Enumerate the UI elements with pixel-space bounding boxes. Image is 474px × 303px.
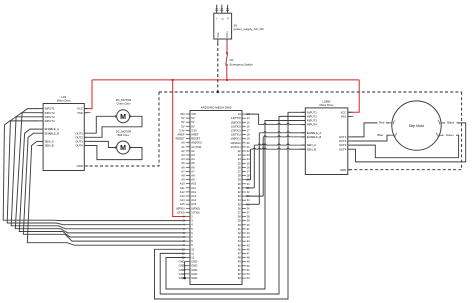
- svg-text:20(SDA): 20(SDA): [230, 141, 240, 145]
- junction GND tie bottom: [183, 277, 186, 280]
- motor drive U1 L1N: [37, 95, 91, 171]
- motor drive U4 L298N: [299, 99, 354, 174]
- svg-text:A11: A11: [180, 186, 185, 190]
- wire switch to red bus (red): [226, 66, 228, 80]
- wire GND bus horizontal dashed: [159, 91, 462, 93]
- svg-text:17(RX2): 17(RX2): [231, 129, 241, 133]
- svg-text:16(TX2): 16(TX2): [231, 124, 241, 128]
- svg-text:A0: A0: [181, 141, 185, 145]
- pin 2 Blue: [391, 134, 394, 136]
- svg-text:A4: A4: [191, 157, 195, 161]
- wire L298N OUT3 to M3 Green: [351, 135, 458, 158]
- svg-text:A1: A1: [181, 145, 185, 149]
- svg-text:DC_MOTOR: DC_MOTOR: [116, 129, 131, 133]
- svg-text:52: 52: [238, 272, 241, 276]
- svg-text:28: 28: [238, 174, 241, 178]
- svg-text:A11: A11: [191, 186, 196, 190]
- svg-text:11: 11: [191, 251, 194, 255]
- pin VDC- stub: [217, 39, 219, 43]
- svg-text:41: 41: [247, 227, 250, 231]
- svg-text:36: 36: [247, 206, 250, 210]
- svg-text:Motor Drive: Motor Drive: [320, 103, 334, 107]
- svg-text:RESET: RESET: [176, 137, 185, 141]
- node Blue label: [376, 132, 386, 137]
- svg-text:G: G: [226, 18, 228, 20]
- svg-text:34: 34: [247, 198, 250, 202]
- svg-text:A6: A6: [191, 165, 195, 169]
- svg-text:37: 37: [247, 211, 250, 215]
- svg-text:22: 22: [238, 149, 241, 153]
- svg-text:19(RX1): 19(RX1): [231, 137, 241, 141]
- svg-text:OUT4: OUT4: [339, 147, 347, 151]
- svg-text:A3: A3: [191, 153, 195, 157]
- svg-text:5V: 5V: [191, 120, 194, 124]
- svg-text:42: 42: [238, 231, 241, 235]
- wire OUT3 to M2 left: [88, 141, 116, 147]
- microcontroller U2 ARDUINO MEGA 2560: [176, 105, 250, 284]
- wire L1N INPUT1 to Arduino pin 6: [15, 109, 186, 233]
- svg-text:A7: A7: [181, 169, 185, 173]
- svg-text:M: M: [120, 114, 126, 121]
- svg-text:40: 40: [238, 223, 241, 227]
- svg-text:VSS: VSS: [341, 115, 347, 119]
- svg-text:46: 46: [247, 247, 250, 251]
- svg-text:38: 38: [238, 215, 241, 219]
- svg-text:Green: Green: [446, 133, 454, 137]
- svg-text:25: 25: [247, 161, 250, 165]
- DC motor M1 Chain Conv: [115, 98, 131, 123]
- svg-text:5V: 5V: [191, 124, 194, 128]
- svg-text:GND: GND: [179, 260, 185, 264]
- svg-text:VDC+: VDC+: [226, 31, 229, 38]
- svg-text:A6: A6: [181, 165, 185, 169]
- svg-text:A15: A15: [180, 202, 185, 206]
- power supply U3 5V power_supply_AC_DC: [214, 5, 265, 39]
- junction red bus / arduino branch: [172, 79, 174, 81]
- svg-text:53: 53: [247, 276, 250, 280]
- svg-text:43: 43: [238, 235, 241, 239]
- svg-text:30: 30: [247, 182, 250, 186]
- svg-text:43: 43: [247, 235, 250, 239]
- svg-text:Red: Red: [379, 121, 385, 125]
- svg-text:50: 50: [238, 264, 241, 268]
- svg-text:L298N: L298N: [323, 99, 331, 103]
- wire Arduino pin 13 to L298N INPUT4: [246, 114, 259, 125]
- wire L298N OUT2 to M3 Blue: [351, 135, 390, 141]
- svg-text:A12: A12: [191, 190, 196, 194]
- svg-text:Step Motor: Step Motor: [409, 124, 426, 128]
- svg-text:35: 35: [238, 202, 241, 206]
- svg-text:AREF: AREF: [177, 133, 185, 137]
- svg-text:Black: Black: [447, 121, 454, 125]
- svg-text:14: 14: [247, 116, 250, 120]
- svg-text:INPUT4: INPUT4: [45, 119, 55, 123]
- svg-text:A13: A13: [180, 194, 185, 198]
- svg-text:NC: NC: [230, 58, 234, 62]
- DC motor M2 Belt Conv: [115, 129, 131, 154]
- svg-text:GND: GND: [191, 268, 197, 272]
- node Green label: [444, 132, 457, 137]
- wire Arduino pin 11 wrap to L298N INPUT2: [160, 116, 305, 294]
- svg-text:M: M: [120, 145, 126, 152]
- wire L298N OUT1 to M3 Red: [351, 123, 389, 137]
- svg-text:50: 50: [247, 264, 250, 268]
- svg-text:GND: GND: [191, 272, 197, 276]
- svg-text:21(SCL): 21(SCL): [231, 145, 241, 149]
- svg-text:39: 39: [247, 219, 250, 223]
- svg-text:VIN: VIN: [180, 112, 185, 116]
- svg-text:A2: A2: [181, 149, 185, 153]
- svg-text:A7: A7: [191, 169, 195, 173]
- pin VDC+ stub: [226, 39, 228, 43]
- wire L298N OUT4 to M3 Black: [351, 123, 465, 162]
- wire L298N SEN_B to Arduino pin 29: [251, 148, 254, 150]
- wire Arduino pin 10 wrap to L298N INPUT1: [155, 112, 306, 299]
- svg-text:A14: A14: [191, 198, 196, 202]
- svg-text:32: 32: [238, 190, 241, 194]
- svg-text:A13: A13: [191, 194, 196, 198]
- svg-text:ENABLE_B: ENABLE_B: [307, 135, 322, 139]
- wire L1N ENABLE_A to Arduino pin 7: [19, 129, 186, 237]
- wire L298N SEN_A to Arduino pin 31: [254, 144, 258, 146]
- svg-text:AREF: AREF: [191, 133, 199, 137]
- node Red label: [378, 120, 387, 125]
- svg-text:ENABLE_B: ENABLE_B: [45, 131, 60, 135]
- svg-text:0(RX0): 0(RX0): [191, 206, 200, 210]
- svg-text:27: 27: [238, 170, 241, 174]
- svg-text:26: 26: [238, 165, 241, 169]
- svg-text:13: 13: [238, 112, 241, 116]
- wire L1N INPUT4 to Arduino pin 3: [3, 121, 186, 221]
- svg-text:Blue: Blue: [377, 133, 383, 137]
- svg-text:0(RX0): 0(RX0): [176, 206, 185, 210]
- svg-text:A1(TX0): A1(TX0): [191, 145, 201, 149]
- svg-text:27: 27: [247, 170, 250, 174]
- svg-text:12: 12: [191, 256, 194, 260]
- wire GND pins tie: [183, 262, 186, 280]
- svg-text:Motor Drive: Motor Drive: [57, 98, 71, 102]
- svg-text:A2: A2: [191, 149, 195, 153]
- svg-text:ARDUINO MEGA 2560: ARDUINO MEGA 2560: [201, 105, 232, 109]
- svg-text:Belt Conv: Belt Conv: [118, 133, 130, 137]
- wire L298N ENABLE_B to Arduino pin 33: [262, 136, 265, 138]
- svg-text:47: 47: [247, 252, 250, 256]
- pin 3 Black: [441, 122, 444, 124]
- svg-text:GND: GND: [191, 276, 197, 280]
- svg-text:5V: 5V: [181, 124, 184, 128]
- svg-text:A8: A8: [191, 174, 195, 178]
- svg-text:5V: 5V: [181, 120, 184, 124]
- svg-text:25: 25: [238, 161, 241, 165]
- svg-text:26: 26: [247, 165, 250, 169]
- svg-text:33: 33: [238, 194, 241, 198]
- svg-text:52: 52: [247, 272, 250, 276]
- wire GND dashed to L298N GND: [348, 92, 462, 170]
- svg-text:A5: A5: [181, 161, 185, 165]
- wire L1N ENABLE_B to Arduino pin 8: [23, 133, 186, 241]
- svg-text:51: 51: [247, 268, 250, 272]
- wire GND VDC- dashed down: [217, 43, 219, 92]
- svg-text:17: 17: [247, 129, 250, 133]
- svg-text:30: 30: [238, 182, 241, 186]
- wire VDC+ to switch (red): [226, 43, 228, 53]
- svg-text:A10: A10: [191, 182, 196, 186]
- svg-text:INPUT4: INPUT4: [307, 123, 317, 127]
- svg-text:34: 34: [238, 198, 241, 202]
- step motor M3: [389, 101, 444, 150]
- wire L1N INPUT3 to Arduino pin 4: [7, 117, 186, 225]
- junction GND bus: [217, 91, 219, 93]
- wire L298N ENABLE_A to Arduino pin 35: [259, 132, 264, 134]
- svg-text:19: 19: [247, 137, 250, 141]
- svg-text:49: 49: [238, 260, 241, 264]
- pin 1 Red: [389, 122, 392, 124]
- svg-text:41: 41: [238, 227, 241, 231]
- svg-text:5V: 5V: [181, 116, 184, 120]
- svg-text:DC_MOTOR: DC_MOTOR: [116, 98, 131, 102]
- svg-text:power_supply_AC_DC: power_supply_AC_DC: [234, 27, 265, 31]
- svg-text:15: 15: [247, 120, 250, 124]
- svg-text:44: 44: [238, 239, 241, 243]
- svg-text:OUT4: OUT4: [75, 144, 83, 148]
- wire red power bus horizontal: [92, 79, 359, 81]
- svg-text:23: 23: [247, 153, 250, 157]
- svg-text:3.3V: 3.3V: [179, 128, 185, 132]
- wire M1 right to OUT2: [88, 116, 142, 137]
- svg-text:37: 37: [238, 211, 241, 215]
- svg-text:18: 18: [247, 133, 250, 137]
- wire red bus to L1N VCC: [84, 80, 92, 109]
- svg-text:42: 42: [247, 231, 250, 235]
- svg-text:31: 31: [238, 186, 241, 190]
- svg-text:39: 39: [238, 219, 241, 223]
- pin 4 Green: [439, 134, 442, 136]
- svg-text:1(TX0): 1(TX0): [191, 210, 199, 214]
- svg-text:48: 48: [247, 256, 250, 260]
- svg-text:15(RX3): 15(RX3): [231, 120, 241, 124]
- svg-text:Chain Conv: Chain Conv: [116, 102, 131, 106]
- svg-text:51: 51: [238, 268, 241, 272]
- switch S1 NC Emergency Switch: [226, 53, 253, 67]
- svg-text:14(TX3): 14(TX3): [231, 116, 241, 120]
- svg-text:A9: A9: [191, 178, 195, 182]
- svg-text:SEN_B: SEN_B: [45, 144, 54, 148]
- svg-text:Emergency Switch: Emergency Switch: [230, 63, 254, 67]
- svg-text:24: 24: [247, 157, 250, 161]
- svg-text:28: 28: [247, 174, 250, 178]
- svg-text:A3: A3: [181, 153, 185, 157]
- svg-text:L1N: L1N: [61, 95, 66, 99]
- svg-text:A15: A15: [191, 202, 196, 206]
- svg-text:21: 21: [247, 145, 250, 149]
- svg-text:GND: GND: [191, 260, 197, 264]
- svg-text:A12: A12: [180, 190, 185, 194]
- svg-text:18(TX1): 18(TX1): [231, 133, 241, 137]
- svg-text:A8: A8: [181, 174, 185, 178]
- svg-text:1(TX0): 1(TX0): [176, 210, 184, 214]
- wire OUT1 to M1 left: [88, 116, 116, 133]
- svg-text:47: 47: [238, 252, 241, 256]
- svg-text:10: 10: [191, 247, 194, 251]
- wire red bus to Arduino pin 2: [173, 80, 186, 217]
- svg-text:A4: A4: [181, 157, 185, 161]
- svg-text:40: 40: [247, 223, 250, 227]
- svg-text:24: 24: [238, 157, 241, 161]
- svg-text:29: 29: [238, 178, 241, 182]
- svg-text:16: 16: [247, 124, 250, 128]
- svg-text:SEN_B: SEN_B: [307, 147, 316, 151]
- svg-text:3.3V: 3.3V: [191, 128, 197, 132]
- svg-text:22: 22: [247, 149, 250, 153]
- wire red bus to L298N VCC: [348, 80, 359, 112]
- svg-text:VIN: VIN: [191, 112, 196, 116]
- svg-text:RESET: RESET: [191, 137, 200, 141]
- svg-text:49: 49: [247, 260, 250, 264]
- svg-text:A0(RX0): A0(RX0): [191, 141, 201, 145]
- junction red bus / switch: [226, 79, 228, 81]
- wire Arduino pin 12 wrap to L298N INPUT3: [166, 121, 305, 290]
- svg-text:VSS: VSS: [77, 111, 83, 115]
- svg-text:45: 45: [247, 243, 250, 247]
- wire L1N INPUT2 to Arduino pin 5: [11, 113, 186, 229]
- svg-text:A9: A9: [181, 178, 185, 182]
- svg-text:A14: A14: [180, 198, 185, 202]
- svg-text:GND: GND: [191, 264, 197, 268]
- wire L1N SEN_A to Arduino pin 9: [27, 141, 186, 245]
- svg-text:A5: A5: [191, 161, 195, 165]
- svg-text:38: 38: [247, 215, 250, 219]
- svg-text:45: 45: [238, 243, 241, 247]
- svg-text:32: 32: [247, 190, 250, 194]
- svg-text:VDC-: VDC-: [217, 32, 220, 38]
- svg-text:23: 23: [238, 153, 241, 157]
- svg-text:5V: 5V: [191, 116, 194, 120]
- svg-text:46: 46: [238, 247, 241, 251]
- svg-text:53: 53: [238, 276, 241, 280]
- node Black label: [445, 120, 457, 125]
- svg-text:GND: GND: [77, 164, 83, 168]
- svg-text:20: 20: [247, 141, 250, 145]
- svg-text:A10: A10: [180, 182, 185, 186]
- svg-text:44: 44: [247, 239, 250, 243]
- wire GND dashed to L1N GND: [84, 92, 159, 166]
- svg-text:36: 36: [238, 206, 241, 210]
- wire M2 right to OUT4: [88, 146, 142, 160]
- svg-text:48: 48: [238, 256, 241, 260]
- svg-text:GND: GND: [340, 168, 346, 172]
